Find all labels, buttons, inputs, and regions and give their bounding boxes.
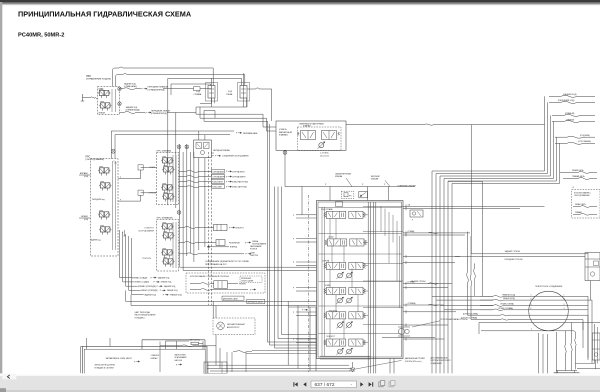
svg-text:ЗАДНИЙ ход: ЗАДНИЙ ход bbox=[90, 239, 100, 242]
svg-text:(СПРАВА НАЗАД): (СПРАВА НАЗАД) bbox=[126, 109, 140, 112]
port line A2 bbox=[403, 230, 470, 234]
svg-text:(СМЕСЬ: (СМЕСЬ bbox=[279, 129, 288, 131]
svg-text:P: P bbox=[120, 177, 121, 179]
svg-text:ГАЗОНАПОЛНЕННЫЙ: ГАЗОНАПОЛНЕННЫЙ bbox=[227, 323, 245, 326]
scrollbar left arrow bbox=[2, 374, 16, 380]
junction plug top bus bbox=[177, 145, 189, 149]
svg-text:ЗАПРАВКА БАКА: ЗАПРАВКА БАКА bbox=[243, 132, 258, 135]
swivel port letters bbox=[531, 295, 565, 311]
tank outlet line bbox=[577, 360, 600, 369]
relief valve on inlet bbox=[359, 192, 368, 198]
svg-text:(ЗАДНИЙ ХОД): (ЗАДНИЙ ХОД) bbox=[563, 93, 577, 96]
swing pilot stub spare bbox=[132, 294, 183, 297]
stub to boom PPC bbox=[118, 190, 157, 201]
svg-text:(ДРОССЕЛЬ): (ДРОССЕЛЬ) bbox=[190, 340, 201, 342]
svg-text:ОЧИСТКИ: ОЧИСТКИ bbox=[250, 255, 259, 257]
svg-text:(СЛЕВА): (СЛЕВА) bbox=[408, 230, 415, 233]
pump suction drop lines bbox=[86, 338, 176, 349]
svg-text:КОВШ: КОВШ bbox=[149, 167, 155, 169]
tank line left of pump box bbox=[81, 347, 83, 374]
solenoid block drain with plug bbox=[283, 150, 287, 186]
wire bus top to reducing valve 2 bbox=[168, 78, 242, 85]
case drain vertical bbox=[582, 323, 584, 331]
svg-text:ВЛЕВО (СПЕРЕДИ): ВЛЕВО (СПЕРЕДИ) bbox=[141, 290, 158, 292]
svg-text:КОВШ РАЗГРУЗКА: КОВШ РАЗГРУЗКА bbox=[232, 181, 248, 184]
PPC valve right body bbox=[157, 220, 179, 272]
travel return bus horizontals bbox=[432, 171, 560, 184]
spool travel right bbox=[321, 208, 366, 219]
pilot bus vertical from travel outputs bbox=[168, 78, 176, 208]
main control valve label bbox=[398, 184, 417, 187]
bucket curl pilot hose bbox=[179, 185, 248, 189]
port line bucket A bbox=[403, 281, 452, 285]
swivel return line bbox=[481, 331, 576, 370]
option hose pair with labels bbox=[560, 169, 597, 180]
hose marking dashed pair bbox=[208, 152, 211, 305]
svg-text:(СПРАВА ВПЕРЕД): (СПРАВА ВПЕРЕД) bbox=[148, 88, 165, 91]
bottom relief note bbox=[405, 357, 426, 363]
nav last-page button bbox=[369, 382, 372, 386]
svg-text:ЗАДНИЙ СТРЕЛЫ: ЗАДНИЙ СТРЕЛЫ bbox=[411, 280, 426, 283]
svg-text:ВПЕРЕД: ВПЕРЕД bbox=[230, 247, 238, 249]
hose to blade cylinder bottom bbox=[555, 140, 595, 144]
swing pilot stub right-front bbox=[126, 285, 176, 288]
swing pilot hose A bbox=[179, 224, 245, 230]
svg-text:ОБОРУДОВАНИЕМ: ОБОРУДОВАНИЕМ bbox=[574, 194, 590, 197]
svg-text:(ОН): (ОН) bbox=[84, 219, 88, 221]
port line swing B bbox=[403, 337, 444, 340]
svg-text:РУКОЯТЬ: РУКОЯТЬ bbox=[142, 258, 151, 260]
boom label bbox=[149, 192, 157, 195]
bottom check valve bbox=[350, 362, 354, 372]
suction strainer box bbox=[204, 362, 227, 373]
swing pilot stub right-rear bbox=[120, 276, 170, 279]
svg-text:СОЕДИНЕНИЕ УДЛИНИТЕЛЯ РУС ПО С: СОЕДИНЕНИЕ УДЛИНИТЕЛЯ РУС ПО СХЕМЕ bbox=[205, 261, 249, 263]
right edge return bend bbox=[575, 324, 597, 364]
pump box upper extension bbox=[142, 340, 205, 350]
long arm option dashed box bbox=[186, 273, 265, 293]
svg-text:СТРЕЛА ВВЕРХ: СТРЕЛА ВВЕРХ bbox=[232, 175, 246, 178]
swivel line aux B bbox=[461, 317, 583, 321]
svg-text:ДОПОЛН. (СЛЕВА): ДОПОЛН. (СЛЕВА) bbox=[463, 312, 478, 315]
svg-text:ВЛЕВО: ВЛЕВО bbox=[81, 216, 88, 218]
svg-text:(ХОД): (ХОД) bbox=[328, 236, 333, 238]
vertical hoses with waves bbox=[467, 232, 482, 320]
svg-text:НА ИЗОЛЯЦИИ ШЛАНГЕ: НА ИЗОЛЯЦИИ ШЛАНГЕ bbox=[135, 314, 157, 317]
wire pilot supply riser bbox=[171, 84, 211, 95]
pressure reducing valve right-travel bbox=[194, 78, 216, 107]
nav next button bbox=[360, 382, 363, 386]
pilot pressure taps bbox=[288, 307, 316, 312]
pilot bus bends to main valve bbox=[180, 267, 317, 270]
valve interior port jogs bbox=[381, 206, 400, 307]
pump feed verticals bbox=[288, 301, 316, 371]
svg-text:ПОКАЗАН ( ): ПОКАЗАН ( ) bbox=[135, 316, 146, 319]
right edge fitting bbox=[592, 333, 600, 360]
svg-text:ПЕРЕДНИЙ СТРЕЛЫ: ПЕРЕДНИЙ СТРЕЛЫ bbox=[505, 258, 523, 261]
svg-text:ОТВАЛ (СПРАВА): ОТВАЛ (СПРАВА) bbox=[498, 307, 513, 310]
main pump line to swing circle bbox=[346, 124, 545, 125]
svg-text:(ПОДЪЕМ): (ПОДЪЕМ) bbox=[580, 135, 590, 137]
swivel line right travel bbox=[480, 293, 588, 297]
solenoid relief setting text bbox=[320, 153, 330, 158]
svg-text:(СЛЕВА НАЗАД): (СЛЕВА НАЗАД) bbox=[124, 85, 137, 88]
swivel line left travel bbox=[480, 297, 588, 301]
swivel lower verticals bbox=[539, 332, 557, 373]
svg-text:(ОПУСКАНИЕ): (ОПУСКАНИЕ) bbox=[578, 140, 591, 143]
manifold port taps bbox=[325, 184, 389, 201]
port line A1 bbox=[403, 205, 545, 208]
hydraulic pump unit box bbox=[82, 346, 207, 374]
left window border bbox=[0, 2, 2, 374]
svg-text:НАСОСА: НАСОСА bbox=[175, 359, 183, 362]
attachment PPC left port labels bbox=[79, 172, 91, 221]
bottom toolbar strip bbox=[0, 373, 600, 375]
hose to left travel motor B bbox=[552, 118, 595, 122]
wire travel pilot B to reducing valve 2 bbox=[116, 74, 245, 87]
boom lock valve leader bbox=[412, 321, 440, 327]
single-page view icon bbox=[379, 381, 385, 387]
svg-text:МАГИСТРАЛЬ: МАГИСТРАЛЬ bbox=[175, 354, 187, 357]
port line boom bottom bbox=[403, 261, 455, 264]
svg-text:(СЛЕВА ВПЕРЕД): (СЛЕВА ВПЕРЕД) bbox=[151, 112, 167, 115]
swivel outlet bends right bbox=[583, 296, 592, 363]
return pipe bbox=[210, 370, 355, 372]
charge line pair to attachment PPC bbox=[111, 131, 258, 159]
pilot feed verticals center bbox=[268, 121, 282, 348]
svg-text:ЛЕВЫЙ ХОД: ЛЕВЫЙ ХОД bbox=[161, 281, 172, 284]
pump box notes bbox=[94, 354, 187, 370]
svg-text:1.47 МПа: 1.47 МПа bbox=[320, 153, 330, 155]
spare port label bbox=[411, 280, 426, 283]
svg-text:ВЛЕВО (СЗАДИ): ВЛЕВО (СЗАДИ) bbox=[135, 281, 149, 284]
svg-text:ЗАРЯДНЫЙ КЛАПАН: ЗАРЯДНЫЙ КЛАПАН bbox=[213, 149, 231, 152]
nav first-page button bbox=[293, 382, 306, 386]
boom raise pilot hose bbox=[179, 175, 247, 179]
pressure reducing valve left-travel bbox=[226, 73, 247, 107]
valve interior port crossings bbox=[363, 206, 403, 342]
hose to right travel motor front bbox=[549, 99, 595, 103]
center vertical bends bbox=[268, 335, 317, 349]
top window bar bbox=[0, 0, 600, 2]
svg-text:КЛАПАН: КЛАПАН bbox=[371, 178, 379, 181]
svg-text:РЕЗЕРВ: РЕЗЕРВ bbox=[239, 283, 246, 285]
svg-text:ПРИНЦИПИАЛЬНАЯ ГИДРАВЛИЧЕСКАЯ: ПРИНЦИПИАЛЬНАЯ ГИДРАВЛИЧЕСКАЯ СХЕМА bbox=[18, 10, 192, 19]
manual close stub bbox=[207, 245, 262, 251]
svg-text:ПЕРЕДНИЙ ПРАВЫЙ: ПЕРЕДНИЙ ПРАВЫЙ bbox=[148, 86, 169, 89]
svg-text:СТРЕЛА ВНИЗ: СТРЕЛА ВНИЗ bbox=[232, 170, 244, 173]
stub to bucket PPC bbox=[118, 165, 157, 179]
svg-text:(ОН): (ОН) bbox=[84, 176, 88, 178]
svg-text:ГЛАВНЫЙ КЛАПАН: ГЛАВНЫЙ КЛАПАН bbox=[398, 184, 417, 187]
swing pilot stub left-front bbox=[129, 289, 178, 292]
hydraulic tank bbox=[554, 371, 580, 373]
svg-text:32.8 МПа {335 кг/см²}: 32.8 МПа {335 кг/см²} bbox=[405, 360, 422, 363]
svg-text:КЛАПАН): КЛАПАН) bbox=[279, 134, 288, 137]
option attachment dashed box bbox=[572, 187, 600, 218]
svg-text:ЦВЕТ ПЕРЕХОДА: ЦВЕТ ПЕРЕХОДА bbox=[135, 311, 151, 314]
svg-text:ЛЕВАЯ ЦЕПЬ: ЛЕВАЯ ЦЕПЬ bbox=[575, 203, 587, 206]
swivel joint circle bbox=[529, 291, 569, 331]
boom lower pilot hose bbox=[179, 169, 245, 173]
svg-text:ПРАВ.: ПРАВ. bbox=[99, 88, 105, 91]
accumulator dashed box bbox=[213, 318, 255, 335]
PPC valve attachment label bbox=[86, 156, 105, 161]
throttle on drain line bbox=[166, 340, 203, 350]
svg-text:СПРАВА: СПРАВА bbox=[194, 93, 202, 96]
svg-text:ОБОРУДОВАНИЯ: ОБОРУДОВАНИЯ bbox=[138, 230, 154, 233]
svg-text:КОВШ: КОВШ bbox=[325, 285, 331, 287]
svg-text:ДАВЛЕНИЕ НАСТРОЙКИ: ДАВЛЕНИЕ НАСТРОЙКИ bbox=[405, 357, 426, 360]
svg-text:АККУМУЛЯТОР: АККУМУЛЯТОР bbox=[227, 326, 240, 329]
arm label bbox=[142, 258, 151, 260]
line below lock valve bbox=[382, 337, 435, 339]
svg-text:4: 4 bbox=[531, 329, 532, 331]
svg-text:(ПЕРЕДНИЙ ХОД): (ПЕРЕДНИЙ ХОД) bbox=[558, 99, 575, 102]
wire routing loop lower bbox=[196, 98, 268, 121]
valve inner bottom lines bbox=[320, 356, 394, 373]
svg-text:СТРЕЛА ВВЕРХ: СТРЕЛА ВВЕРХ bbox=[212, 175, 226, 178]
spool arm bbox=[324, 311, 366, 329]
svg-text:СЛЕВА: СЛЕВА bbox=[226, 93, 233, 96]
pipe risers bbox=[216, 346, 252, 372]
PPC valve right label bbox=[157, 216, 173, 219]
attachment PPC drain marks bbox=[122, 230, 126, 236]
relief note labels bbox=[335, 172, 390, 186]
upper-line pair to service box bbox=[455, 250, 588, 261]
accumulator connections bbox=[160, 301, 216, 372]
solenoid valve spool left bbox=[297, 131, 315, 140]
boom lock valve bbox=[398, 327, 410, 336]
svg-text:ОТВАЛ (СЛЕВА): ОТВАЛ (СЛЕВА) bbox=[500, 303, 514, 306]
valve internal gallery lines bbox=[368, 202, 376, 373]
svg-text:СЛИВНОЙ: СЛИВНОЙ bbox=[151, 354, 160, 357]
svg-text:КОВШ ЗАГР.: КОВШ ЗАГР. bbox=[212, 186, 222, 189]
bucket dump pilot hose bbox=[179, 180, 249, 184]
hose to left travel motor A bbox=[552, 112, 595, 116]
svg-text:СОЕДИНЕНИЯ: СОЕДИНЕНИЯ bbox=[431, 363, 443, 365]
svg-text:ВЕРХНИЙ: ВЕРХНИЙ bbox=[371, 175, 380, 178]
port line boom head bbox=[403, 255, 460, 258]
svg-text:ЭМУЛЬСИЯ НЕ ДОЛЖНА: ЭМУЛЬСИЯ НЕ ДОЛЖНА bbox=[94, 364, 115, 367]
svg-text:ПРАВЫЙ (ХОД): ПРАВЫЙ (ХОД) bbox=[502, 293, 515, 296]
svg-text:ВПРАВО (СПЕРЕДИ): ВПРАВО (СПЕРЕДИ) bbox=[138, 285, 156, 288]
bottom-left corner chip bbox=[0, 388, 6, 392]
swing equipment label bbox=[138, 228, 155, 233]
svg-text:ЗАКРЫВАНИЕ: ЗАКРЫВАНИЕ bbox=[250, 245, 262, 248]
svg-text:ЛЕВАЯ ЦЕПЬ: ЛЕВАЯ ЦЕПЬ bbox=[572, 169, 584, 172]
valve inter-row connectors bbox=[322, 207, 358, 356]
svg-text:ПОВОРОТ: ПОВОРОТ bbox=[235, 227, 245, 229]
spool boom bbox=[322, 260, 366, 279]
svg-text:ПЕРЕДНИЙ ЛЕВЫЙ: ПЕРЕДНИЙ ЛЕВЫЙ bbox=[151, 109, 170, 112]
PPC valve attachment body bbox=[90, 159, 118, 257]
hose to right travel motor rear bbox=[549, 93, 595, 97]
PPC valve travel-control body bbox=[98, 87, 120, 115]
hose to blade cylinder head bbox=[555, 135, 595, 138]
arm pilot hose bbox=[179, 253, 259, 258]
swivel feed bends bbox=[432, 296, 493, 310]
option note boxlet bbox=[240, 276, 262, 283]
pump box port marks bbox=[134, 361, 182, 367]
svg-text:ПОПАДАТЬ В СИСТЕМУ: ПОПАДАТЬ В СИСТЕМУ bbox=[94, 366, 114, 369]
valve centreline bbox=[308, 195, 310, 372]
svg-text:СТРЕЛА: СТРЕЛА bbox=[149, 192, 157, 195]
tank feed verticals bbox=[565, 323, 573, 371]
drain line to swivel bbox=[448, 182, 483, 297]
svg-text:ПОВОРОТНОЕ СОЕДИНЕНИЕ: ПОВОРОТНОЕ СОЕДИНЕНИЕ bbox=[535, 286, 563, 288]
svg-text:СТРЕЛА ВНИЗ: СТРЕЛА ВНИЗ bbox=[212, 170, 224, 173]
pressure switch bbox=[341, 191, 354, 198]
suction return line bottom bbox=[159, 342, 161, 346]
PPC valve left body bbox=[157, 153, 179, 205]
wire routing loop upper bbox=[206, 83, 250, 108]
svg-text:ПРС (ПРАВЫЙ): ПРС (ПРАВЫЙ) bbox=[157, 216, 173, 219]
svg-text:КЛАПАН: КЛАПАН bbox=[151, 357, 159, 360]
svg-text:ПРС (ЛЕВЫЙ): ПРС (ЛЕВЫЙ) bbox=[157, 149, 172, 152]
chain holder line 1 bbox=[126, 290, 317, 301]
svg-text:КОВШ РАЗГР.: КОВШ РАЗГР. bbox=[212, 181, 223, 184]
svg-text:ХОД СПРАВА: ХОД СПРАВА bbox=[321, 208, 333, 211]
main control valve body bbox=[317, 201, 404, 359]
swing pilot hose B bbox=[179, 240, 267, 246]
delivery pipe bbox=[207, 368, 352, 370]
bottom leader diagonal bbox=[349, 360, 401, 370]
travel PPC outlet junctions bbox=[118, 87, 122, 106]
boom lock valve label bbox=[440, 318, 468, 321]
solenoid shutoff valve block body bbox=[276, 121, 346, 151]
solenoid block pilot pump circle bbox=[318, 142, 325, 149]
swivel line blade B bbox=[480, 307, 588, 311]
wire travel pilot A to reducing valve 1 bbox=[113, 67, 214, 87]
svg-text:ВПРАВО: ВПРАВО bbox=[80, 172, 89, 175]
port line swing A bbox=[403, 323, 448, 326]
svg-text:ЗАДНИЙ ХОД: ЗАДНИЙ ХОД bbox=[158, 276, 170, 279]
svg-text:ЗАПРАВЛЯЕМОЕ ОЧИЩ. МАСЛО: ЗАПРАВЛЯЕМОЕ ОЧИЩ. МАСЛО bbox=[106, 357, 133, 360]
svg-text:САМЫЙ ВЕРХНИЙ: САМЫЙ ВЕРХНИЙ bbox=[335, 172, 352, 175]
svg-text:КЛАПАН: КЛАПАН bbox=[335, 175, 343, 178]
svg-text:СМЕНА: СМЕНА bbox=[252, 240, 259, 243]
wire reducing valve 2 to solenoid block bbox=[247, 88, 272, 121]
port line arm A bbox=[403, 302, 444, 306]
svg-text:РЕЗЕРВНЫЙ: РЕЗЕРВНЫЙ bbox=[229, 241, 240, 244]
reserve port row bbox=[211, 155, 249, 158]
note text on arm extension bbox=[205, 261, 249, 266]
PPC valve travel-control label bbox=[86, 75, 111, 81]
junction plug on charge pair bbox=[111, 149, 115, 153]
swivel line blade A bbox=[480, 303, 588, 307]
facing-page view icon bbox=[389, 381, 395, 387]
port line bucket B bbox=[403, 286, 448, 289]
svg-text:КОВШ ЗАГРУЗКА: КОВШ ЗАГРУЗКА bbox=[232, 186, 247, 189]
port line B1 bbox=[403, 207, 520, 210]
svg-text:ПОВОРОТ: ПОВОРОТ bbox=[145, 228, 155, 230]
svg-text:СОЕДИНЕНИЕ ОБОРУДОВАНИЯ: СОЕДИНЕНИЕ ОБОРУДОВАНИЯ bbox=[222, 155, 249, 158]
svg-text:ПЕРЕДНИЙ ход: ПЕРЕДНИЙ ход bbox=[92, 198, 105, 201]
svg-text:ПОВОРОТ: ПОВОРОТ bbox=[326, 336, 336, 338]
svg-text:ВПРАВО (СЗАДИ): ВПРАВО (СЗАДИ) bbox=[132, 276, 148, 279]
attachment PPC output drops bbox=[120, 230, 132, 295]
svg-text:ТОЛЬКО УДЛИН.: ТОЛЬКО УДЛИН. bbox=[241, 280, 254, 282]
svg-text:{15 кг/см²}: {15 кг/см²} bbox=[320, 154, 329, 157]
nav prev button bbox=[303, 382, 306, 386]
pilot bus lines bbox=[180, 144, 205, 270]
oil drain note bbox=[431, 356, 452, 364]
svg-text:P: P bbox=[120, 199, 121, 201]
svg-text:ЛЕВЫЙ ХОД: ЛЕВЫЙ ХОД bbox=[167, 289, 178, 292]
page number field bbox=[311, 381, 357, 388]
svg-text:МАГНИТНЫЙ: МАГНИТНЫЙ bbox=[279, 131, 292, 134]
svg-text:ВСАСЫВАНИЯ: ВСАСЫВАНИЯ bbox=[175, 356, 188, 359]
svg-text:ЗАДНИЙ ХОД: ЗАДНИЙ ХОД bbox=[144, 294, 156, 297]
svg-text:ПРАВЫЙ ХОД: ПРАВЫЙ ХОД bbox=[170, 294, 183, 297]
svg-text:P: P bbox=[114, 161, 115, 163]
wire drops to solenoid block bbox=[263, 114, 276, 131]
travel output line front-right bbox=[120, 82, 212, 91]
auxiliary service valve box bbox=[585, 253, 600, 301]
svg-text:PC40MR, 50MR-2: PC40MR, 50MR-2 bbox=[18, 33, 64, 39]
svg-text:ЗАДНИЙ СТРЕЛЫ: ЗАДНИЙ СТРЕЛЫ bbox=[505, 250, 521, 253]
svg-text:ПРИ ПОКАЧКЕ НА РУС: ПРИ ПОКАЧКЕ НА РУС bbox=[205, 263, 227, 266]
svg-text:637 / 672: 637 / 672 bbox=[315, 382, 335, 388]
PPC valve left label bbox=[157, 149, 172, 152]
spool travel left bbox=[325, 236, 367, 246]
travel output line rear-left bbox=[120, 106, 197, 115]
junction plug left bus bbox=[177, 211, 181, 215]
swivel drain line bbox=[479, 323, 600, 335]
pilot manifold line bbox=[285, 187, 415, 215]
hose color note text bbox=[135, 311, 157, 320]
solenoid line drop bbox=[470, 125, 472, 254]
valve section divider lines bbox=[319, 208, 402, 334]
svg-text:ПРС: ПРС bbox=[86, 75, 91, 78]
svg-text:(ПРАВЫЙ): (ПРАВЫЙ) bbox=[565, 112, 575, 115]
svg-text:ПРАВАЯ ЦЕПЬ: ПРАВАЯ ЦЕПЬ bbox=[572, 175, 586, 178]
travel hose bracket verticals bbox=[545, 96, 560, 183]
svg-text:РУЧНОЕ: РУЧНОЕ bbox=[250, 248, 258, 250]
swing pilot stub left-rear bbox=[123, 281, 172, 284]
svg-text:ЛЕВЫЙ (ХОД): ЛЕВЫЙ (ХОД) bbox=[503, 297, 515, 300]
valve left port stubs bbox=[293, 215, 317, 343]
port line arm B bbox=[403, 310, 456, 313]
svg-text:(СПРАВА): (СПРАВА) bbox=[408, 302, 416, 305]
svg-text:ПРАВАЯ: ПРАВАЯ bbox=[575, 211, 583, 214]
suction pipe bbox=[207, 351, 349, 366]
accumulator charge valve box bbox=[194, 131, 231, 158]
svg-text:(УПРАВЛЕНИЕ ХОДОМ): (УПРАВЛЕНИЕ ХОДОМ) bbox=[86, 78, 111, 81]
solenoid valve spool right bbox=[322, 131, 340, 140]
travel return bus verticals right of valve bbox=[432, 171, 452, 373]
check valve on port line bbox=[410, 210, 423, 222]
bucket label bbox=[149, 167, 155, 169]
swivel joint label bbox=[535, 286, 563, 288]
port line B2 bbox=[403, 233, 465, 236]
svg-text:ЛЕВЫЙ: ЛЕВЫЙ bbox=[99, 112, 106, 115]
chain holder line 2 bbox=[131, 295, 317, 306]
spool swing bbox=[324, 336, 366, 355]
svg-text:(ЛЕВЫЙ): (ЛЕВЫЙ) bbox=[566, 118, 574, 121]
port wave marks bbox=[428, 232, 438, 306]
travel PPC tank stub hose bbox=[81, 94, 98, 101]
swivel line aux A bbox=[463, 312, 588, 316]
svg-text:ПРС: ПРС bbox=[86, 156, 91, 158]
svg-text:ИСПОЛЬЗОВАНИЕ С УДЛИНЕННОЙ РУК: ИСПОЛЬЗОВАНИЕ С УДЛИНЕННОЙ РУКОЯТЬЮ bbox=[190, 275, 229, 278]
svg-text:ЗАДНИЙ ХОД: ЗАДНИЙ ХОД bbox=[164, 285, 176, 288]
spool bucket bbox=[324, 285, 366, 304]
